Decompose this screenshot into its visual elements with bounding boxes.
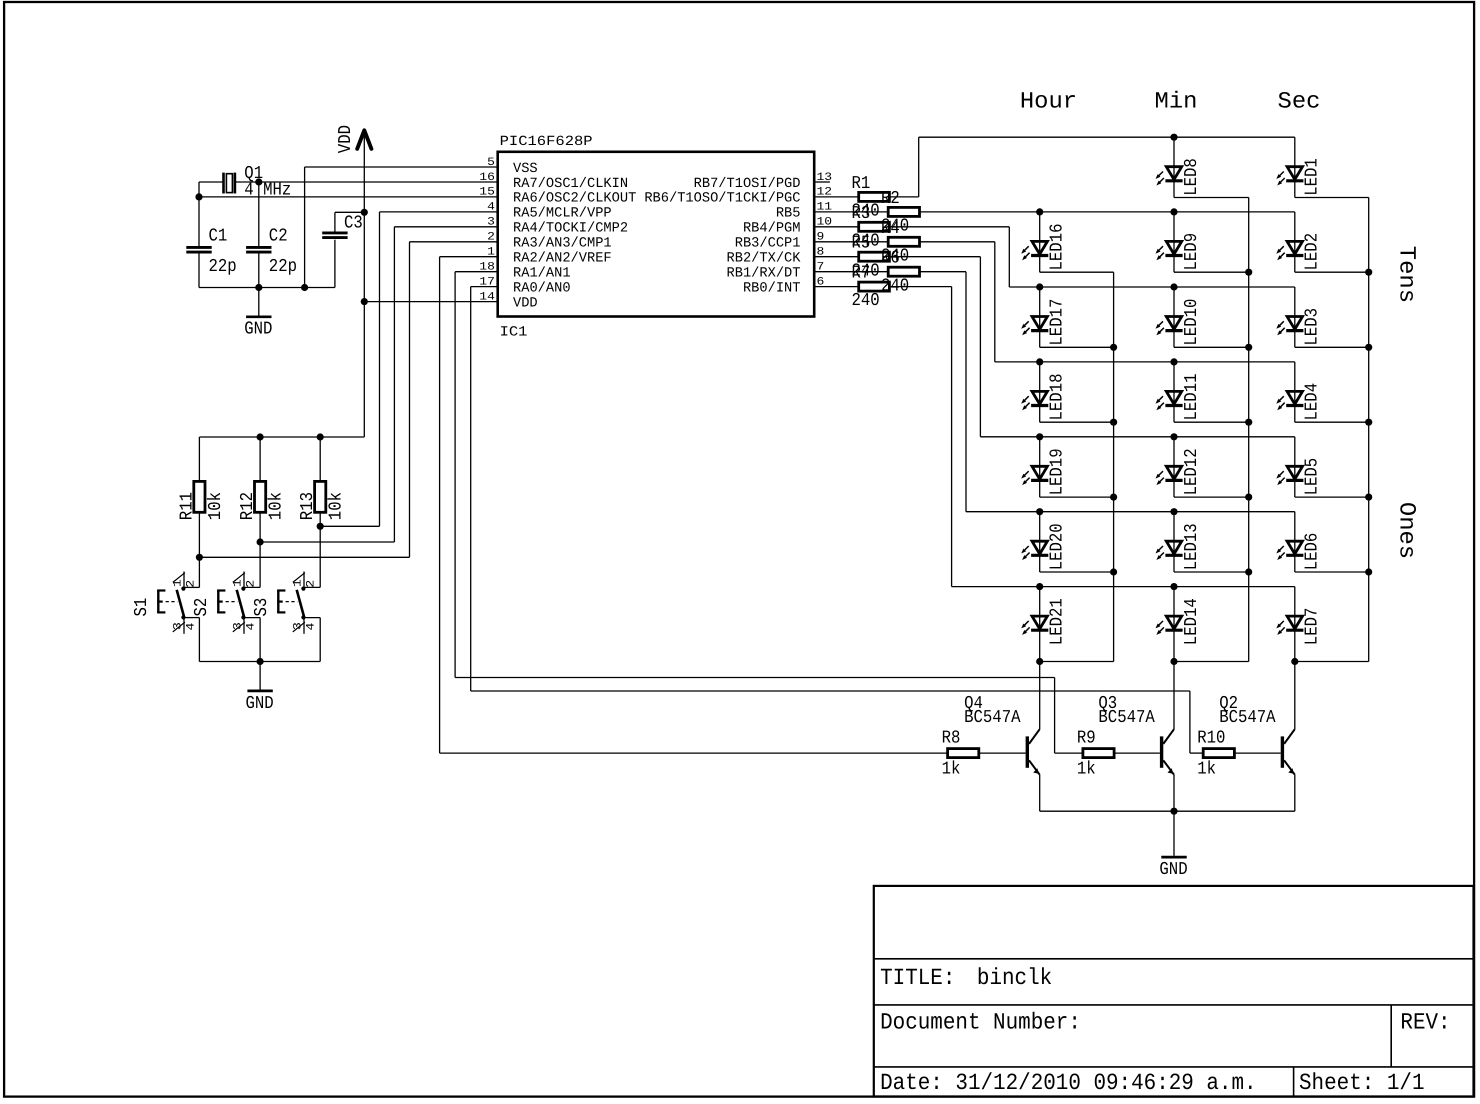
svg-text:22p: 22p bbox=[209, 257, 237, 277]
svg-text:RA5/MCLR/VPP: RA5/MCLR/VPP bbox=[513, 206, 612, 222]
svg-text:LED13: LED13 bbox=[1182, 523, 1202, 570]
svg-text:RA3/AN3/CMP1: RA3/AN3/CMP1 bbox=[513, 236, 612, 252]
svg-text:RA7/OSC1/CLKIN: RA7/OSC1/CLKIN bbox=[513, 176, 628, 192]
svg-text:R3: R3 bbox=[852, 204, 871, 224]
svg-text:RB0/INT: RB0/INT bbox=[743, 280, 801, 296]
svg-text:C2: C2 bbox=[269, 226, 288, 246]
svg-text:RB2/TX/CK: RB2/TX/CK bbox=[727, 251, 802, 267]
svg-text:LED16: LED16 bbox=[1048, 224, 1068, 271]
svg-text:RA6/OSC2/CLKOUT: RA6/OSC2/CLKOUT bbox=[513, 191, 636, 207]
svg-text:4: 4 bbox=[306, 622, 318, 630]
svg-text:R7: R7 bbox=[852, 264, 871, 284]
svg-text:240: 240 bbox=[881, 276, 909, 296]
svg-text:Tens: Tens bbox=[1394, 246, 1420, 303]
svg-text:3: 3 bbox=[173, 622, 185, 630]
svg-text:10k: 10k bbox=[267, 492, 287, 520]
svg-text:LED6: LED6 bbox=[1303, 533, 1323, 571]
svg-text:1: 1 bbox=[232, 579, 244, 587]
svg-text:1k: 1k bbox=[1197, 760, 1216, 780]
svg-text:R4: R4 bbox=[881, 219, 900, 239]
svg-text:LED19: LED19 bbox=[1048, 448, 1068, 495]
svg-text:S3: S3 bbox=[252, 598, 272, 617]
svg-text:10k: 10k bbox=[327, 492, 347, 520]
svg-text:S2: S2 bbox=[192, 598, 212, 617]
svg-text:BC547A: BC547A bbox=[1098, 708, 1155, 728]
svg-text:LED20: LED20 bbox=[1048, 523, 1068, 570]
svg-text:RA2/AN2/VREF: RA2/AN2/VREF bbox=[513, 251, 612, 267]
svg-text:LED14: LED14 bbox=[1182, 598, 1202, 645]
svg-text:GND: GND bbox=[1159, 860, 1187, 880]
svg-text:LED17: LED17 bbox=[1048, 299, 1068, 346]
svg-text:LED18: LED18 bbox=[1048, 374, 1068, 421]
svg-text:binclk: binclk bbox=[977, 965, 1052, 991]
svg-text:LED5: LED5 bbox=[1303, 458, 1323, 496]
svg-text:LED1: LED1 bbox=[1303, 158, 1323, 196]
svg-text:RA4/TOCKI/CMP2: RA4/TOCKI/CMP2 bbox=[513, 221, 628, 237]
svg-text:LED7: LED7 bbox=[1303, 608, 1323, 646]
svg-text:S1: S1 bbox=[132, 598, 152, 617]
svg-text:VSS: VSS bbox=[513, 161, 538, 177]
svg-text:C3: C3 bbox=[344, 214, 363, 234]
svg-text:GND: GND bbox=[244, 320, 272, 340]
svg-text:Hour: Hour bbox=[1020, 88, 1077, 114]
svg-text:BC547A: BC547A bbox=[964, 708, 1021, 728]
svg-text:1k: 1k bbox=[942, 760, 961, 780]
svg-text:4 MHz: 4 MHz bbox=[244, 181, 291, 201]
svg-text:R1: R1 bbox=[852, 174, 871, 194]
svg-text:GND: GND bbox=[246, 694, 274, 714]
svg-text:RB6/T1OSO/T1CKI/PGC: RB6/T1OSO/T1CKI/PGC bbox=[644, 191, 800, 207]
svg-text:Ones: Ones bbox=[1394, 502, 1420, 559]
svg-text:Min: Min bbox=[1155, 88, 1198, 114]
svg-text:R11: R11 bbox=[177, 492, 197, 520]
svg-text:R13: R13 bbox=[298, 492, 318, 520]
svg-text:LED11: LED11 bbox=[1182, 374, 1202, 421]
svg-text:RB4/PGM: RB4/PGM bbox=[743, 221, 801, 237]
svg-text:TITLE:: TITLE: bbox=[880, 965, 955, 991]
svg-text:LED4: LED4 bbox=[1303, 383, 1323, 421]
svg-text:RB5: RB5 bbox=[776, 206, 801, 222]
svg-text:Sheet: 1/1: Sheet: 1/1 bbox=[1299, 1070, 1425, 1096]
svg-text:VDD: VDD bbox=[336, 125, 356, 153]
svg-text:LED10: LED10 bbox=[1182, 299, 1202, 346]
svg-text:LED2: LED2 bbox=[1303, 233, 1323, 271]
svg-text:3: 3 bbox=[293, 622, 305, 630]
svg-text:1: 1 bbox=[172, 579, 184, 587]
svg-text:1k: 1k bbox=[1077, 760, 1096, 780]
svg-text:1: 1 bbox=[292, 579, 304, 587]
svg-text:R6: R6 bbox=[881, 249, 900, 269]
svg-text:3: 3 bbox=[233, 622, 245, 630]
svg-text:C1: C1 bbox=[209, 226, 228, 246]
svg-text:LED8: LED8 bbox=[1182, 158, 1202, 196]
svg-text:LED9: LED9 bbox=[1182, 233, 1202, 271]
svg-text:2: 2 bbox=[186, 580, 198, 588]
svg-text:R2: R2 bbox=[881, 189, 900, 209]
svg-text:2: 2 bbox=[246, 580, 258, 588]
svg-text:RB1/RX/DT: RB1/RX/DT bbox=[727, 266, 801, 282]
svg-text:4: 4 bbox=[186, 622, 198, 630]
svg-text:IC1: IC1 bbox=[500, 325, 528, 341]
svg-text:Sec: Sec bbox=[1278, 88, 1321, 114]
svg-text:Document Number:: Document Number: bbox=[880, 1010, 1081, 1036]
svg-text:R9: R9 bbox=[1077, 729, 1096, 749]
svg-text:R10: R10 bbox=[1197, 729, 1225, 749]
svg-text:LED21: LED21 bbox=[1048, 598, 1068, 645]
svg-text:2: 2 bbox=[306, 580, 318, 588]
svg-text:VDD: VDD bbox=[513, 295, 538, 311]
svg-text:RA1/AN1: RA1/AN1 bbox=[513, 266, 571, 282]
svg-text:PIC16F628P: PIC16F628P bbox=[500, 134, 593, 150]
svg-text:LED3: LED3 bbox=[1303, 308, 1323, 346]
svg-text:RA0/AN0: RA0/AN0 bbox=[513, 280, 571, 296]
svg-text:R8: R8 bbox=[942, 729, 961, 749]
svg-text:10k: 10k bbox=[206, 492, 226, 520]
svg-text:RB7/T1OSI/PGD: RB7/T1OSI/PGD bbox=[694, 176, 801, 192]
svg-text:LED12: LED12 bbox=[1182, 448, 1202, 495]
svg-text:RB3/CCP1: RB3/CCP1 bbox=[735, 236, 801, 252]
svg-text:REV:: REV: bbox=[1400, 1010, 1450, 1036]
svg-text:R12: R12 bbox=[238, 492, 258, 520]
svg-text:22p: 22p bbox=[269, 257, 297, 277]
svg-text:R5: R5 bbox=[852, 234, 871, 254]
svg-text:4: 4 bbox=[246, 622, 258, 630]
svg-text:Date: 31/12/2010 09:46:29 a.m.: Date: 31/12/2010 09:46:29 a.m. bbox=[880, 1070, 1257, 1096]
svg-text:240: 240 bbox=[852, 291, 880, 311]
svg-text:BC547A: BC547A bbox=[1219, 708, 1276, 728]
